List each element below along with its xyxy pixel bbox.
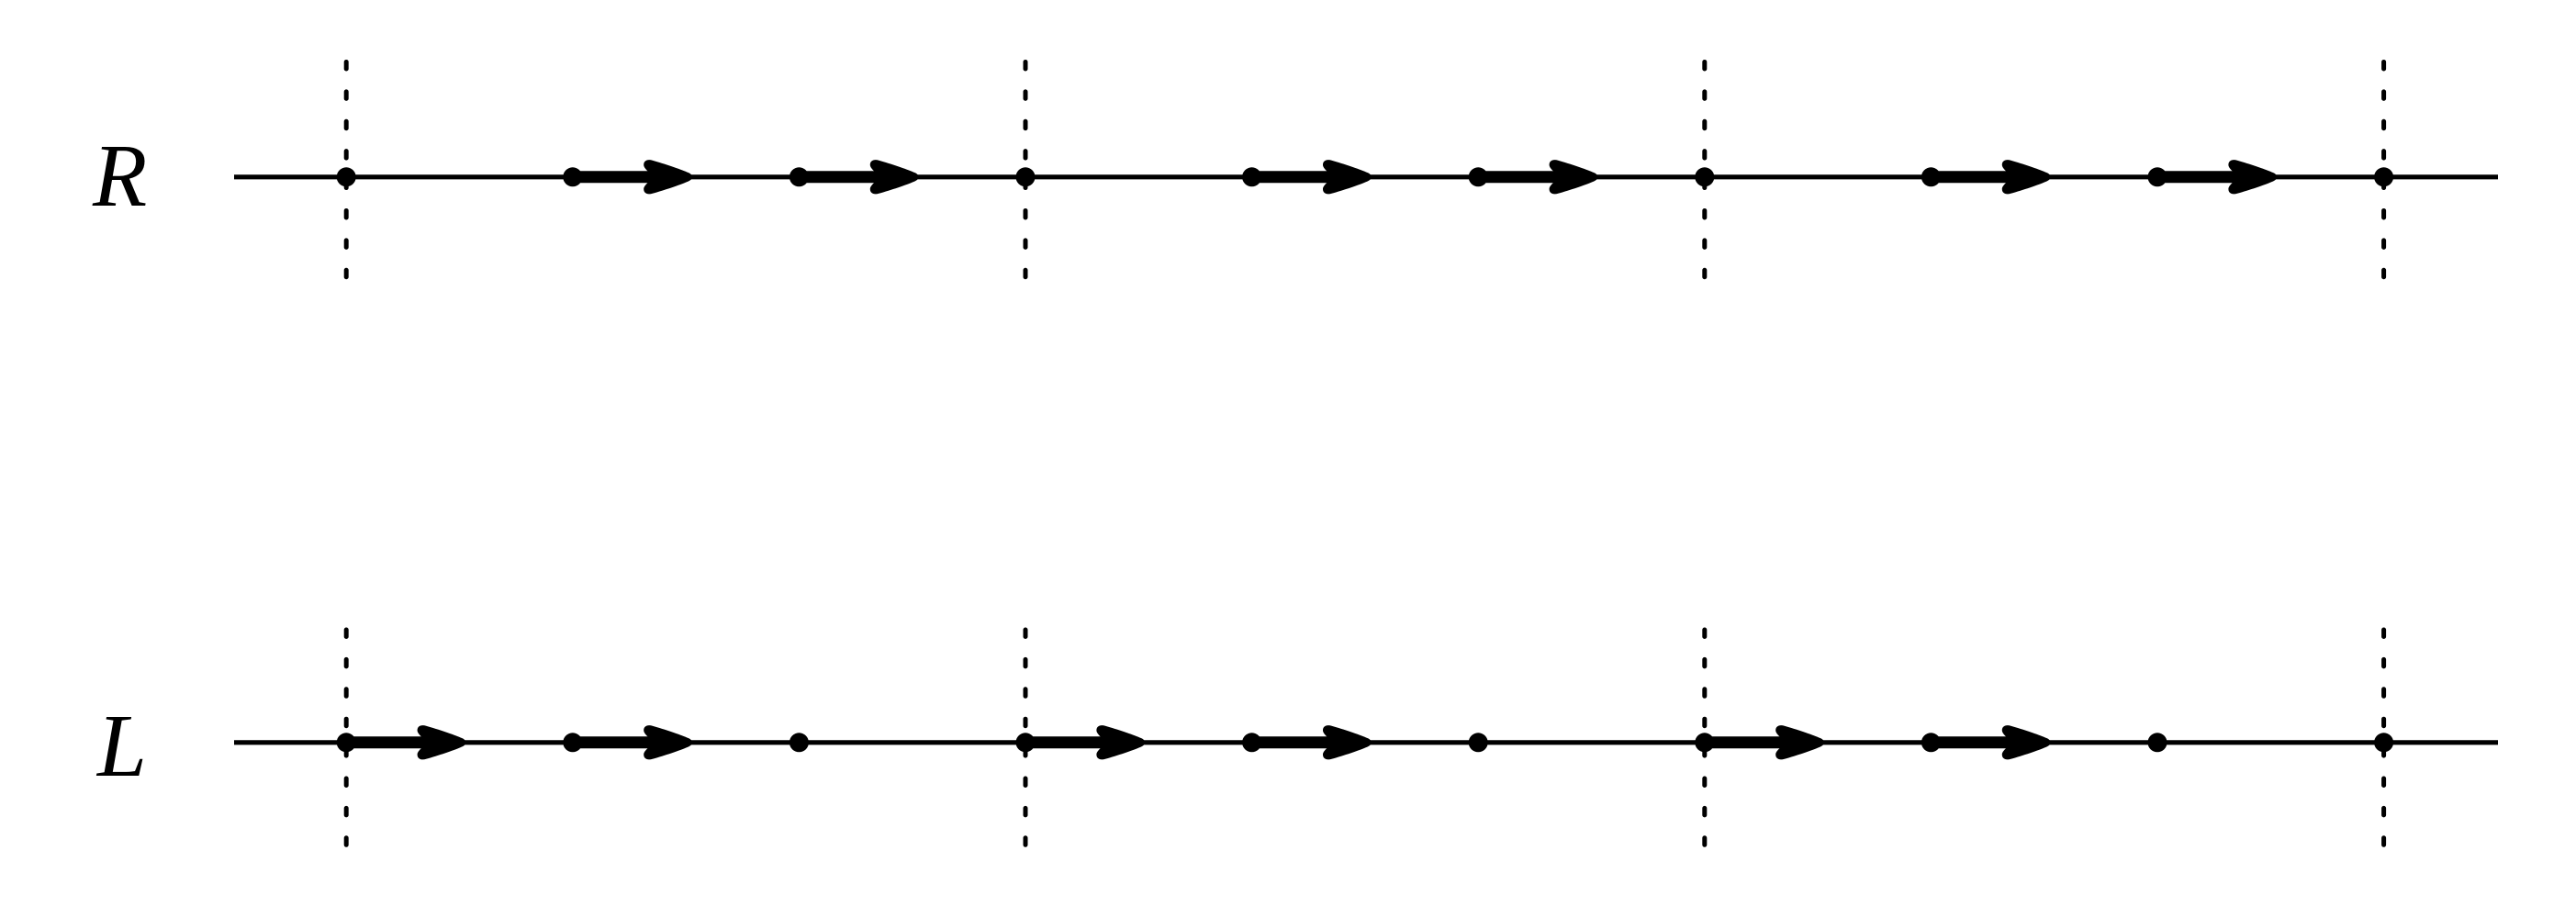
arrow L1 [573, 725, 692, 759]
dotted gridline R at x=1857 [1702, 62, 1707, 277]
node L2 [790, 733, 809, 752]
node R4 [1242, 167, 1261, 186]
dotted gridline R at x=377 [344, 62, 349, 277]
node R5 [1469, 167, 1488, 186]
arrow L4 [1252, 725, 1372, 759]
node L3 [1016, 733, 1036, 752]
dotted gridline L at x=1857 [1702, 630, 1707, 845]
node R8 [2148, 167, 2167, 186]
svg-text:R: R [92, 127, 147, 225]
dotted gridline L at x=1117 [1024, 630, 1028, 845]
arrow R1 [573, 160, 692, 194]
arrow R4 [1252, 160, 1372, 194]
dotted gridline L at x=377 [344, 630, 349, 845]
arrow R7 [1931, 160, 2050, 194]
arrow L7 [1931, 725, 2050, 759]
node L7 [1921, 733, 1941, 752]
arrow R8 [2157, 160, 2277, 194]
timeline L (wire) [234, 740, 2498, 744]
dotted gridline R at x=2597 [2381, 62, 2386, 277]
dotted gridline R at x=1117 [1024, 62, 1028, 277]
arrow R2 [799, 160, 918, 194]
node L4 [1242, 733, 1261, 752]
arrow L3 [1025, 725, 1145, 759]
node R6 [1695, 167, 1714, 186]
node R3 [1016, 167, 1036, 186]
node R7 [1921, 167, 1941, 186]
node R2 [790, 167, 809, 186]
node L6 [1695, 733, 1714, 752]
arrow L6 [1705, 725, 1824, 759]
node L5 [1469, 733, 1488, 752]
node R1 [563, 167, 582, 186]
node R0 [337, 167, 356, 186]
node L9 [2374, 733, 2393, 752]
svg-text:L: L [95, 697, 147, 795]
arrow R5 [1478, 160, 1597, 194]
node L1 [563, 733, 582, 752]
node L0 [337, 733, 356, 752]
node L8 [2148, 733, 2167, 752]
dotted gridline L at x=2597 [2381, 630, 2386, 845]
arrow L0 [346, 725, 465, 759]
node R9 [2374, 167, 2393, 186]
timeline R (wire) [234, 174, 2498, 179]
